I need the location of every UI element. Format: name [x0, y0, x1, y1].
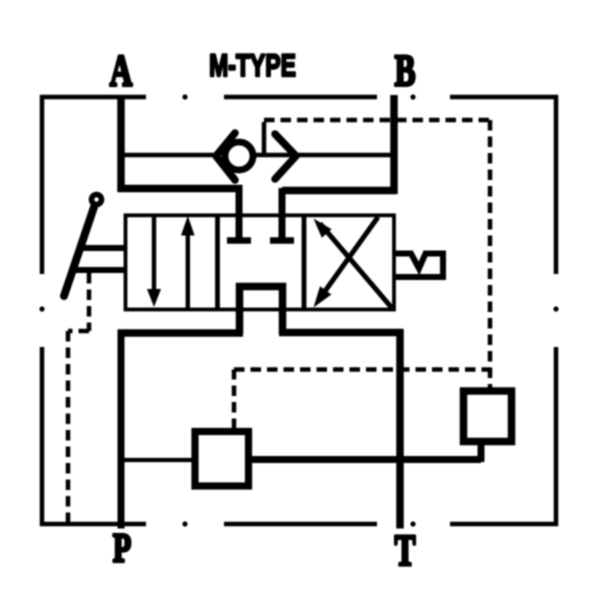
wire check valve to B: [256, 153, 391, 158]
border top: [40, 95, 558, 100]
detent symbol: [393, 254, 443, 278]
svg-text:M-TYPE: M-TYPE: [209, 47, 296, 82]
wire P to valve S1: [121, 458, 192, 462]
lever pilot dashed: [68, 273, 89, 524]
bridge P-T bypass: [240, 287, 283, 335]
enclosure border (dash-dot frame): [40, 95, 558, 526]
svg-text:B: B: [395, 47, 416, 95]
valve body V1: [126, 215, 395, 309]
blocked port bar B: [270, 237, 294, 244]
flow arrow chevron: [275, 134, 296, 179]
wire A tee to valve: [118, 185, 243, 193]
wire riser to S2: [478, 443, 485, 462]
lever knob: [92, 195, 102, 205]
check valve ball: [225, 142, 253, 170]
crossover diagonal 2: [319, 217, 378, 300]
wire T riser: [396, 329, 404, 529]
wire B port vertical: [390, 95, 398, 194]
blocked port bar A: [227, 237, 251, 244]
wire P horizontal: [118, 329, 244, 337]
wire A port vertical: [117, 95, 125, 192]
valve S2 square: [464, 391, 512, 442]
wire P riser: [118, 330, 125, 529]
wire B tee to valve: [282, 187, 397, 195]
wire B stub into valve: [279, 188, 286, 239]
crossover diagonal 1: [320, 224, 392, 308]
down arrow left box: [152, 217, 156, 291]
wire S1 to S2: [252, 456, 481, 463]
pilot dashed from S1: [234, 370, 491, 430]
up arrow left box: [186, 234, 190, 308]
svg-text:P: P: [113, 525, 131, 571]
lever link upper: [80, 245, 127, 251]
lever link lower: [72, 267, 127, 273]
pilot line dashed top right: [264, 120, 490, 388]
border dots: [39, 94, 558, 526]
lever arm: [64, 207, 94, 296]
border right: [554, 95, 559, 526]
svg-text:A: A: [110, 47, 133, 95]
svg-text:T: T: [395, 527, 416, 575]
wire T horizontal: [279, 329, 403, 337]
wire riser to pilot line: [262, 122, 267, 155]
valve divider left: [215, 215, 220, 309]
border left: [40, 95, 45, 526]
check valve seat: [216, 133, 235, 180]
wire A stub into valve: [236, 188, 243, 239]
wire A to check valve: [121, 153, 214, 158]
border bottom: [40, 522, 558, 527]
valve divider right: [302, 215, 307, 309]
valve S1 square: [195, 432, 249, 487]
